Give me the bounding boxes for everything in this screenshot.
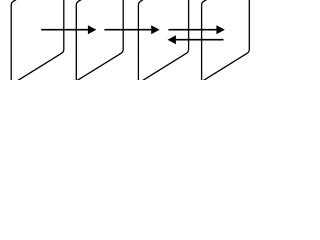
- arrow 2 (shape2 to shape3) shaft: [104, 29, 151, 31]
- arrow 1 (shape1 to shape2) shaft: [41, 29, 88, 31]
- card shape 3: [138, 0, 188, 83]
- card shape 1: [11, 0, 64, 86]
- arrow 3 head: [216, 25, 224, 34]
- arrow 1 head: [88, 25, 96, 34]
- arrow 4 head: [168, 35, 176, 44]
- card shape 4: [202, 0, 250, 83]
- arrow 2 head: [151, 25, 159, 34]
- card shape 2: [76, 0, 123, 82]
- arrow 3 (shape3 to shape4, upper right-pointing) shaft: [168, 29, 217, 31]
- arrow 4 (shape4 to shape3, lower left-pointing) shaft: [175, 39, 223, 41]
